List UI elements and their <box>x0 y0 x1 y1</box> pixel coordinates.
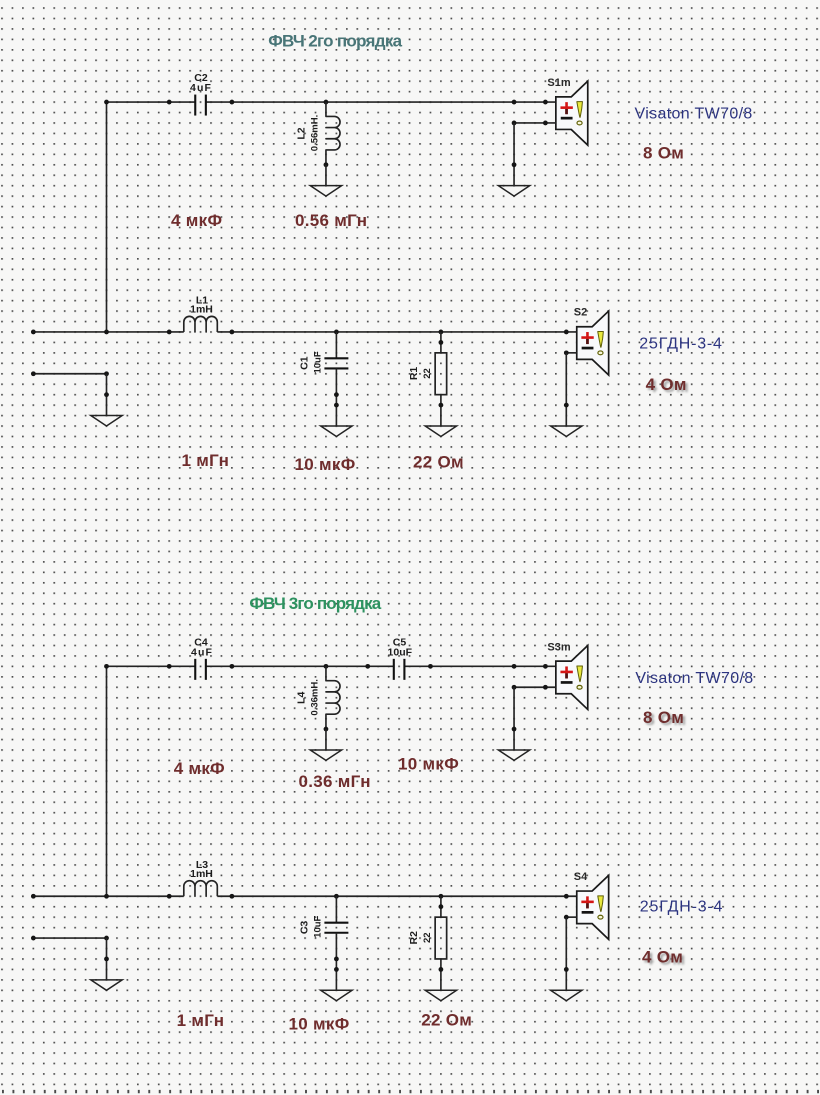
junction resistor top <box>439 894 444 899</box>
svg-text:Visaton TW70/8: Visaton TW70/8 <box>635 670 753 687</box>
wire S1m negative down to ground <box>513 123 515 186</box>
junction <box>334 403 339 408</box>
speaker S2 (woofer) <box>577 311 609 375</box>
resistor R1 (shunt) <box>435 332 447 426</box>
wire row1: C2 right plate to speaker S1m <box>206 101 556 103</box>
wire input negative terminal <box>33 373 106 375</box>
wire row2: input to series inductor <box>33 895 183 897</box>
wire row1: bus to C2 left plate <box>107 101 196 103</box>
junction <box>334 392 339 397</box>
junction <box>104 392 109 397</box>
wire input negative to ground <box>106 374 108 416</box>
svg-text:10 мкФ: 10 мкФ <box>398 755 459 774</box>
wire S2 negative terminal <box>566 352 576 354</box>
wire bus from node IN+ down (section 2) <box>106 666 108 896</box>
junction <box>512 664 517 669</box>
svg-text:C1: C1 <box>299 356 311 370</box>
junction corner <box>104 371 109 376</box>
svg-text:S1m: S1m <box>547 77 570 89</box>
ground below S1m <box>498 186 529 196</box>
junction bus/row1 <box>104 664 109 669</box>
junction <box>230 330 235 335</box>
svg-text:0.36 мГн: 0.36 мГн <box>299 772 371 791</box>
junction <box>428 664 433 669</box>
svg-text:25ГДН-3-4: 25ГДН-3-4 <box>639 336 722 353</box>
wire S3m negative terminal <box>514 686 556 688</box>
capacitor C1 (shunt) <box>324 358 348 368</box>
inductor L2 (shunt) <box>326 102 340 165</box>
junction <box>439 967 444 972</box>
svg-text:22 Ом: 22 Ом <box>413 453 464 472</box>
wire C1 bottom lead to ground <box>335 368 337 426</box>
junction <box>167 330 172 335</box>
junction corner <box>564 350 569 355</box>
svg-text:4uF: 4uF <box>190 82 212 94</box>
wire S1m negative terminal <box>514 122 556 124</box>
wire L2 to ground <box>325 165 327 186</box>
ground below C3 <box>321 990 352 1000</box>
ground below S2 <box>551 426 582 436</box>
svg-text:22: 22 <box>422 368 433 379</box>
junction <box>104 957 109 962</box>
junction <box>543 685 548 690</box>
ground below C1 <box>321 426 352 436</box>
junction shunt inductor top <box>324 100 329 105</box>
resistor R2 (shunt) <box>435 896 447 990</box>
svg-text:4 мкФ: 4 мкФ <box>174 759 225 778</box>
speaker S3m (tweeter) <box>556 645 588 709</box>
junction <box>167 664 172 669</box>
capacitor C4 <box>195 659 206 680</box>
svg-text:Visaton TW70/8: Visaton TW70/8 <box>635 106 753 123</box>
wire S2 negative down to ground <box>565 353 567 426</box>
junction <box>543 121 548 126</box>
inductor L4 (shunt) <box>326 666 340 729</box>
ground below L2 <box>310 186 341 196</box>
wire row2: input to series inductor <box>33 331 183 333</box>
svg-text:8 Ом: 8 Ом <box>643 708 684 727</box>
svg-text:10 мкФ: 10 мкФ <box>289 1015 350 1034</box>
junction woofer <box>564 330 569 335</box>
ground input <box>91 416 122 426</box>
svg-text:1 мГн: 1 мГн <box>182 451 230 470</box>
junction <box>543 664 548 669</box>
wire C1 top lead <box>335 332 337 358</box>
ground below R2 <box>425 990 456 1000</box>
wire L4 to ground <box>325 729 327 750</box>
capacitor C3 (shunt) <box>324 923 348 933</box>
node IN- terminal <box>31 936 36 941</box>
junction bus/row2 <box>104 894 109 899</box>
inductor L1 (series) <box>184 316 218 332</box>
junction corner <box>512 121 517 126</box>
wire row1: C5 right plate to speaker S3m <box>404 665 555 667</box>
junction shunt inductor top <box>324 664 329 669</box>
svg-text:4 Ом: 4 Ом <box>646 375 687 394</box>
svg-text:0.56 мГн: 0.56 мГн <box>295 211 367 230</box>
svg-text:10uF: 10uF <box>388 646 413 658</box>
ground below R1 <box>425 426 456 436</box>
junction <box>512 727 517 732</box>
junction below L2 <box>324 162 329 167</box>
svg-text:4 Ом: 4 Ом <box>642 948 683 967</box>
inductor L3 (series) <box>184 881 218 897</box>
speaker S4 (woofer) <box>577 875 609 939</box>
capacitor C5 <box>394 659 405 680</box>
wire input negative terminal <box>33 937 106 939</box>
junction <box>439 403 444 408</box>
svg-text:22 Ом: 22 Ом <box>421 1011 472 1030</box>
junction <box>167 100 172 105</box>
junction woofer <box>564 894 569 899</box>
wire S3m negative down to ground <box>513 687 515 750</box>
svg-text:10 мкФ: 10 мкФ <box>295 455 356 474</box>
ground below S4 <box>551 990 582 1000</box>
wire bus from node IN+ down (section 1) <box>106 102 108 332</box>
ground below S3m <box>498 750 529 760</box>
junction <box>230 100 235 105</box>
capacitor C2 <box>195 95 206 116</box>
speaker S1m (tweeter) <box>556 81 588 145</box>
svg-text:ФВЧ 2го порядка: ФВЧ 2го порядка <box>268 32 402 51</box>
svg-text:25ГДН-3-4: 25ГДН-3-4 <box>640 899 723 916</box>
wire row1: C4 to C5 left plate <box>206 665 394 667</box>
svg-text:L4: L4 <box>296 692 308 704</box>
junction <box>512 100 517 105</box>
wire input negative to ground <box>106 938 108 980</box>
wire S4 negative terminal <box>566 916 576 918</box>
node IN+ terminal <box>31 894 36 899</box>
junction bus/row2 <box>104 330 109 335</box>
wire S4 negative down to ground <box>565 917 567 990</box>
junction shunt cap top <box>334 894 339 899</box>
ground below L4 <box>310 750 341 760</box>
svg-text:8 Ом: 8 Ом <box>643 144 684 163</box>
junction <box>564 967 569 972</box>
junction <box>564 403 569 408</box>
svg-text:R1: R1 <box>408 367 420 381</box>
svg-text:10uF: 10uF <box>313 351 324 373</box>
svg-text:C3: C3 <box>299 921 311 935</box>
svg-text:S2: S2 <box>574 307 587 319</box>
svg-text:0.56mH.: 0.56mH. <box>310 115 321 151</box>
svg-text:4uF: 4uF <box>191 646 213 658</box>
svg-text:1 мГн: 1 мГн <box>177 1011 225 1030</box>
junction shunt cap top <box>334 330 339 335</box>
svg-text:S4: S4 <box>574 871 588 883</box>
svg-text:0.36mH.: 0.36mH. <box>310 679 321 715</box>
junction below L4 <box>324 727 329 732</box>
junction corner <box>564 915 569 920</box>
wire row1: bus to C4 left plate <box>107 665 196 667</box>
svg-text:L2: L2 <box>296 127 308 139</box>
junction <box>365 664 370 669</box>
junction corner <box>512 685 517 690</box>
svg-text:ФВЧ 3го порядка: ФВЧ 3го порядка <box>249 594 381 613</box>
junction resistor top <box>439 330 444 335</box>
node IN- terminal <box>31 371 36 376</box>
svg-text:1mH: 1mH <box>190 304 213 316</box>
svg-text:22: 22 <box>422 932 433 943</box>
junction bus/row1 <box>104 100 109 105</box>
ground input <box>91 980 122 990</box>
bottom edge dot row <box>2 1090 820 1093</box>
junction corner <box>104 936 109 941</box>
junction <box>543 100 548 105</box>
svg-text:10uF: 10uF <box>313 915 324 937</box>
junction <box>230 894 235 899</box>
junction <box>230 664 235 669</box>
junction <box>512 162 517 167</box>
svg-text:S3m: S3m <box>547 641 570 653</box>
svg-text:4 мкФ: 4 мкФ <box>171 211 222 230</box>
wire row2: series inductor to woofer <box>217 331 576 333</box>
junction <box>334 957 339 962</box>
junction <box>167 894 172 899</box>
wire C3 bottom lead to ground <box>335 933 337 991</box>
junction <box>439 904 444 909</box>
wire C3 top lead <box>335 896 337 922</box>
svg-text:R2: R2 <box>408 931 420 945</box>
junction <box>439 340 444 345</box>
svg-text:1mH: 1mH <box>190 868 213 880</box>
wire row2: series inductor to woofer <box>217 895 576 897</box>
node IN+ terminal <box>31 330 36 335</box>
junction <box>334 967 339 972</box>
